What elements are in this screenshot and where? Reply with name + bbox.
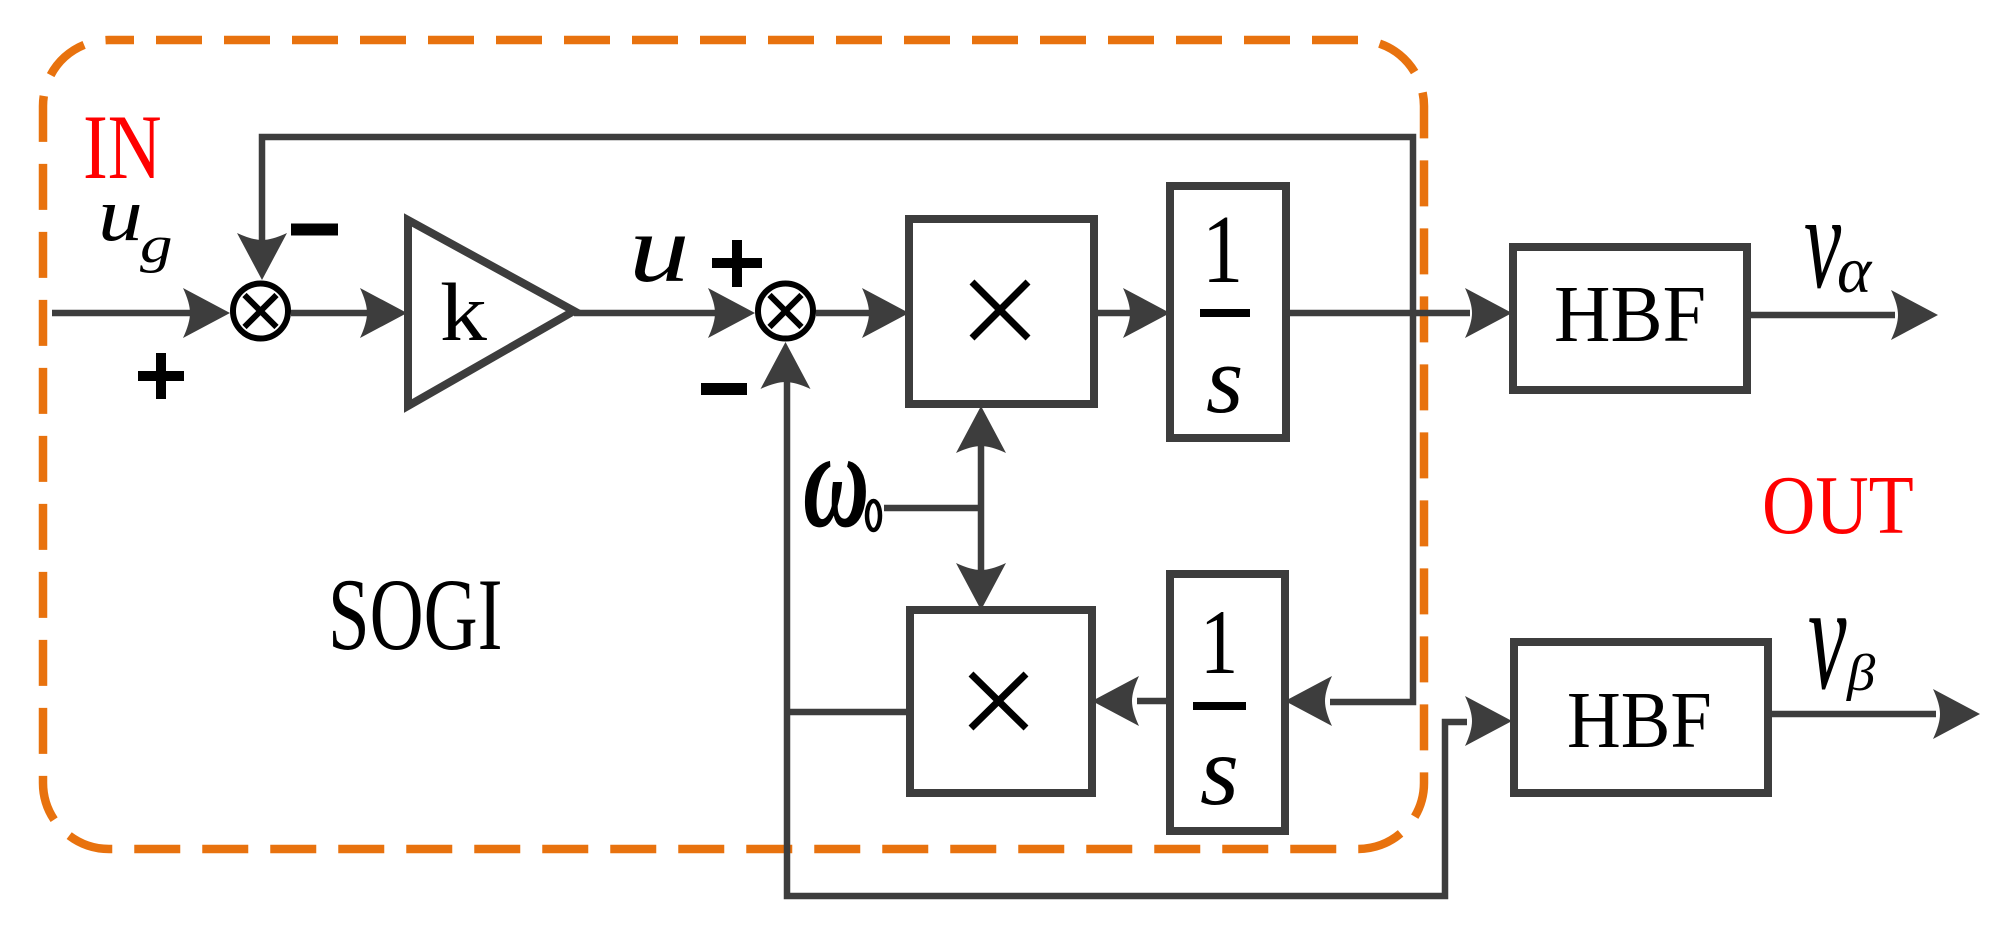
- svg-text:1: 1: [1200, 592, 1238, 693]
- plus sign at S2: [712, 240, 762, 287]
- plus sign at S1: [138, 353, 184, 399]
- label v_alpha: [1804, 168, 1873, 317]
- wire M2 output qv' to node: [787, 709, 910, 716]
- minus sign at S1 (feedback input): [291, 224, 338, 236]
- label omega0: [803, 403, 880, 556]
- wire feedback top: v' node to S1: [237, 137, 1413, 310]
- gain value label k: [440, 267, 488, 359]
- wire qv' bottom feedback to HBF2: [787, 696, 1512, 896]
- HBF1 label: [1554, 271, 1706, 359]
- svg-text:HBF: HBF: [1554, 271, 1706, 359]
- svg-text:1: 1: [1202, 197, 1243, 304]
- wire v' right vertical (feedback bus down to I2): [1285, 313, 1413, 726]
- wire I2 to M2: [1092, 676, 1170, 726]
- HBF2 label: [1567, 676, 1712, 765]
- svg-text:v: v: [1804, 168, 1841, 317]
- label v_beta: [1808, 553, 1875, 721]
- label u (node between k and S2): [629, 196, 689, 302]
- label u_g (input signal): [98, 172, 173, 273]
- wire HBF1 output v_alpha: [1747, 290, 1938, 340]
- svg-text:k: k: [440, 267, 488, 359]
- svg-text:α: α: [1837, 234, 1873, 307]
- wire omega0 to M1 and M2: [884, 406, 1006, 610]
- wire I1 to HBF1 (v' node, crosses right vertical): [1286, 288, 1512, 338]
- label OUT: [1762, 460, 1914, 552]
- integrator I1 (1/s): [1170, 186, 1286, 438]
- svg-text:ω: ω: [803, 403, 869, 556]
- svg-text:u: u: [629, 196, 689, 302]
- svg-text:β: β: [1846, 644, 1875, 701]
- multiplier M2: [910, 610, 1092, 793]
- svg-text:s: s: [1206, 326, 1243, 433]
- wire S2 to multiplier M1: [816, 288, 909, 338]
- dashed boundary of SOGI block: [43, 40, 1424, 849]
- label SOGI: [328, 559, 502, 672]
- wire k to S2: [574, 288, 755, 338]
- minus sign at S2 (qv' feedback input): [701, 383, 747, 395]
- gain block k (triangle): [408, 220, 574, 406]
- svg-text:g: g: [140, 216, 173, 273]
- label IN: [83, 97, 162, 199]
- HBF block HBF2: [1514, 642, 1768, 793]
- wire M1 to integrator I1: [1094, 288, 1170, 338]
- wire input u_g into S1: [52, 288, 230, 338]
- svg-text:SOGI: SOGI: [328, 559, 502, 672]
- summing junction S2: [758, 284, 813, 339]
- integrator I2 (1/s): [1170, 574, 1285, 831]
- svg-text:u: u: [98, 172, 143, 256]
- wire HBF2 output v_beta: [1768, 689, 1980, 739]
- svg-text:v: v: [1808, 553, 1847, 721]
- wire qv' up to S2 minus input: [761, 342, 811, 712]
- HBF block HBF1: [1513, 247, 1747, 390]
- svg-text:s: s: [1200, 715, 1239, 826]
- svg-text:OUT: OUT: [1762, 460, 1914, 552]
- multiplier M1: [909, 219, 1094, 404]
- wire S1 to gain k: [291, 288, 407, 338]
- svg-text:HBF: HBF: [1567, 676, 1712, 765]
- summing junction S1: [233, 284, 288, 339]
